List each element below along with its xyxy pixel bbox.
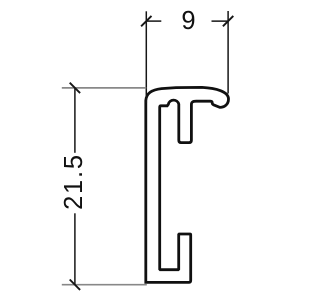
dimension line top left segment (146, 20, 161, 22)
tick left-top (70, 83, 80, 93)
dimension line left lower segment (74, 213, 76, 284)
extension line left (top dim) (145, 11, 147, 103)
svg-text:21.5: 21.5 (60, 153, 88, 210)
extension line top (left dim), gray (62, 87, 147, 89)
extension line bottom (left dim), gray (62, 284, 147, 286)
frame profile cross-section outline (146, 87, 229, 282)
tick left-bottom (70, 280, 80, 290)
tick top-left (141, 16, 151, 26)
dimension line top right segment (212, 20, 229, 22)
dimension line left upper segment (74, 88, 76, 153)
tick top-right (223, 16, 233, 26)
extension line right (top dim) (227, 11, 229, 94)
svg-text:9: 9 (181, 7, 195, 35)
